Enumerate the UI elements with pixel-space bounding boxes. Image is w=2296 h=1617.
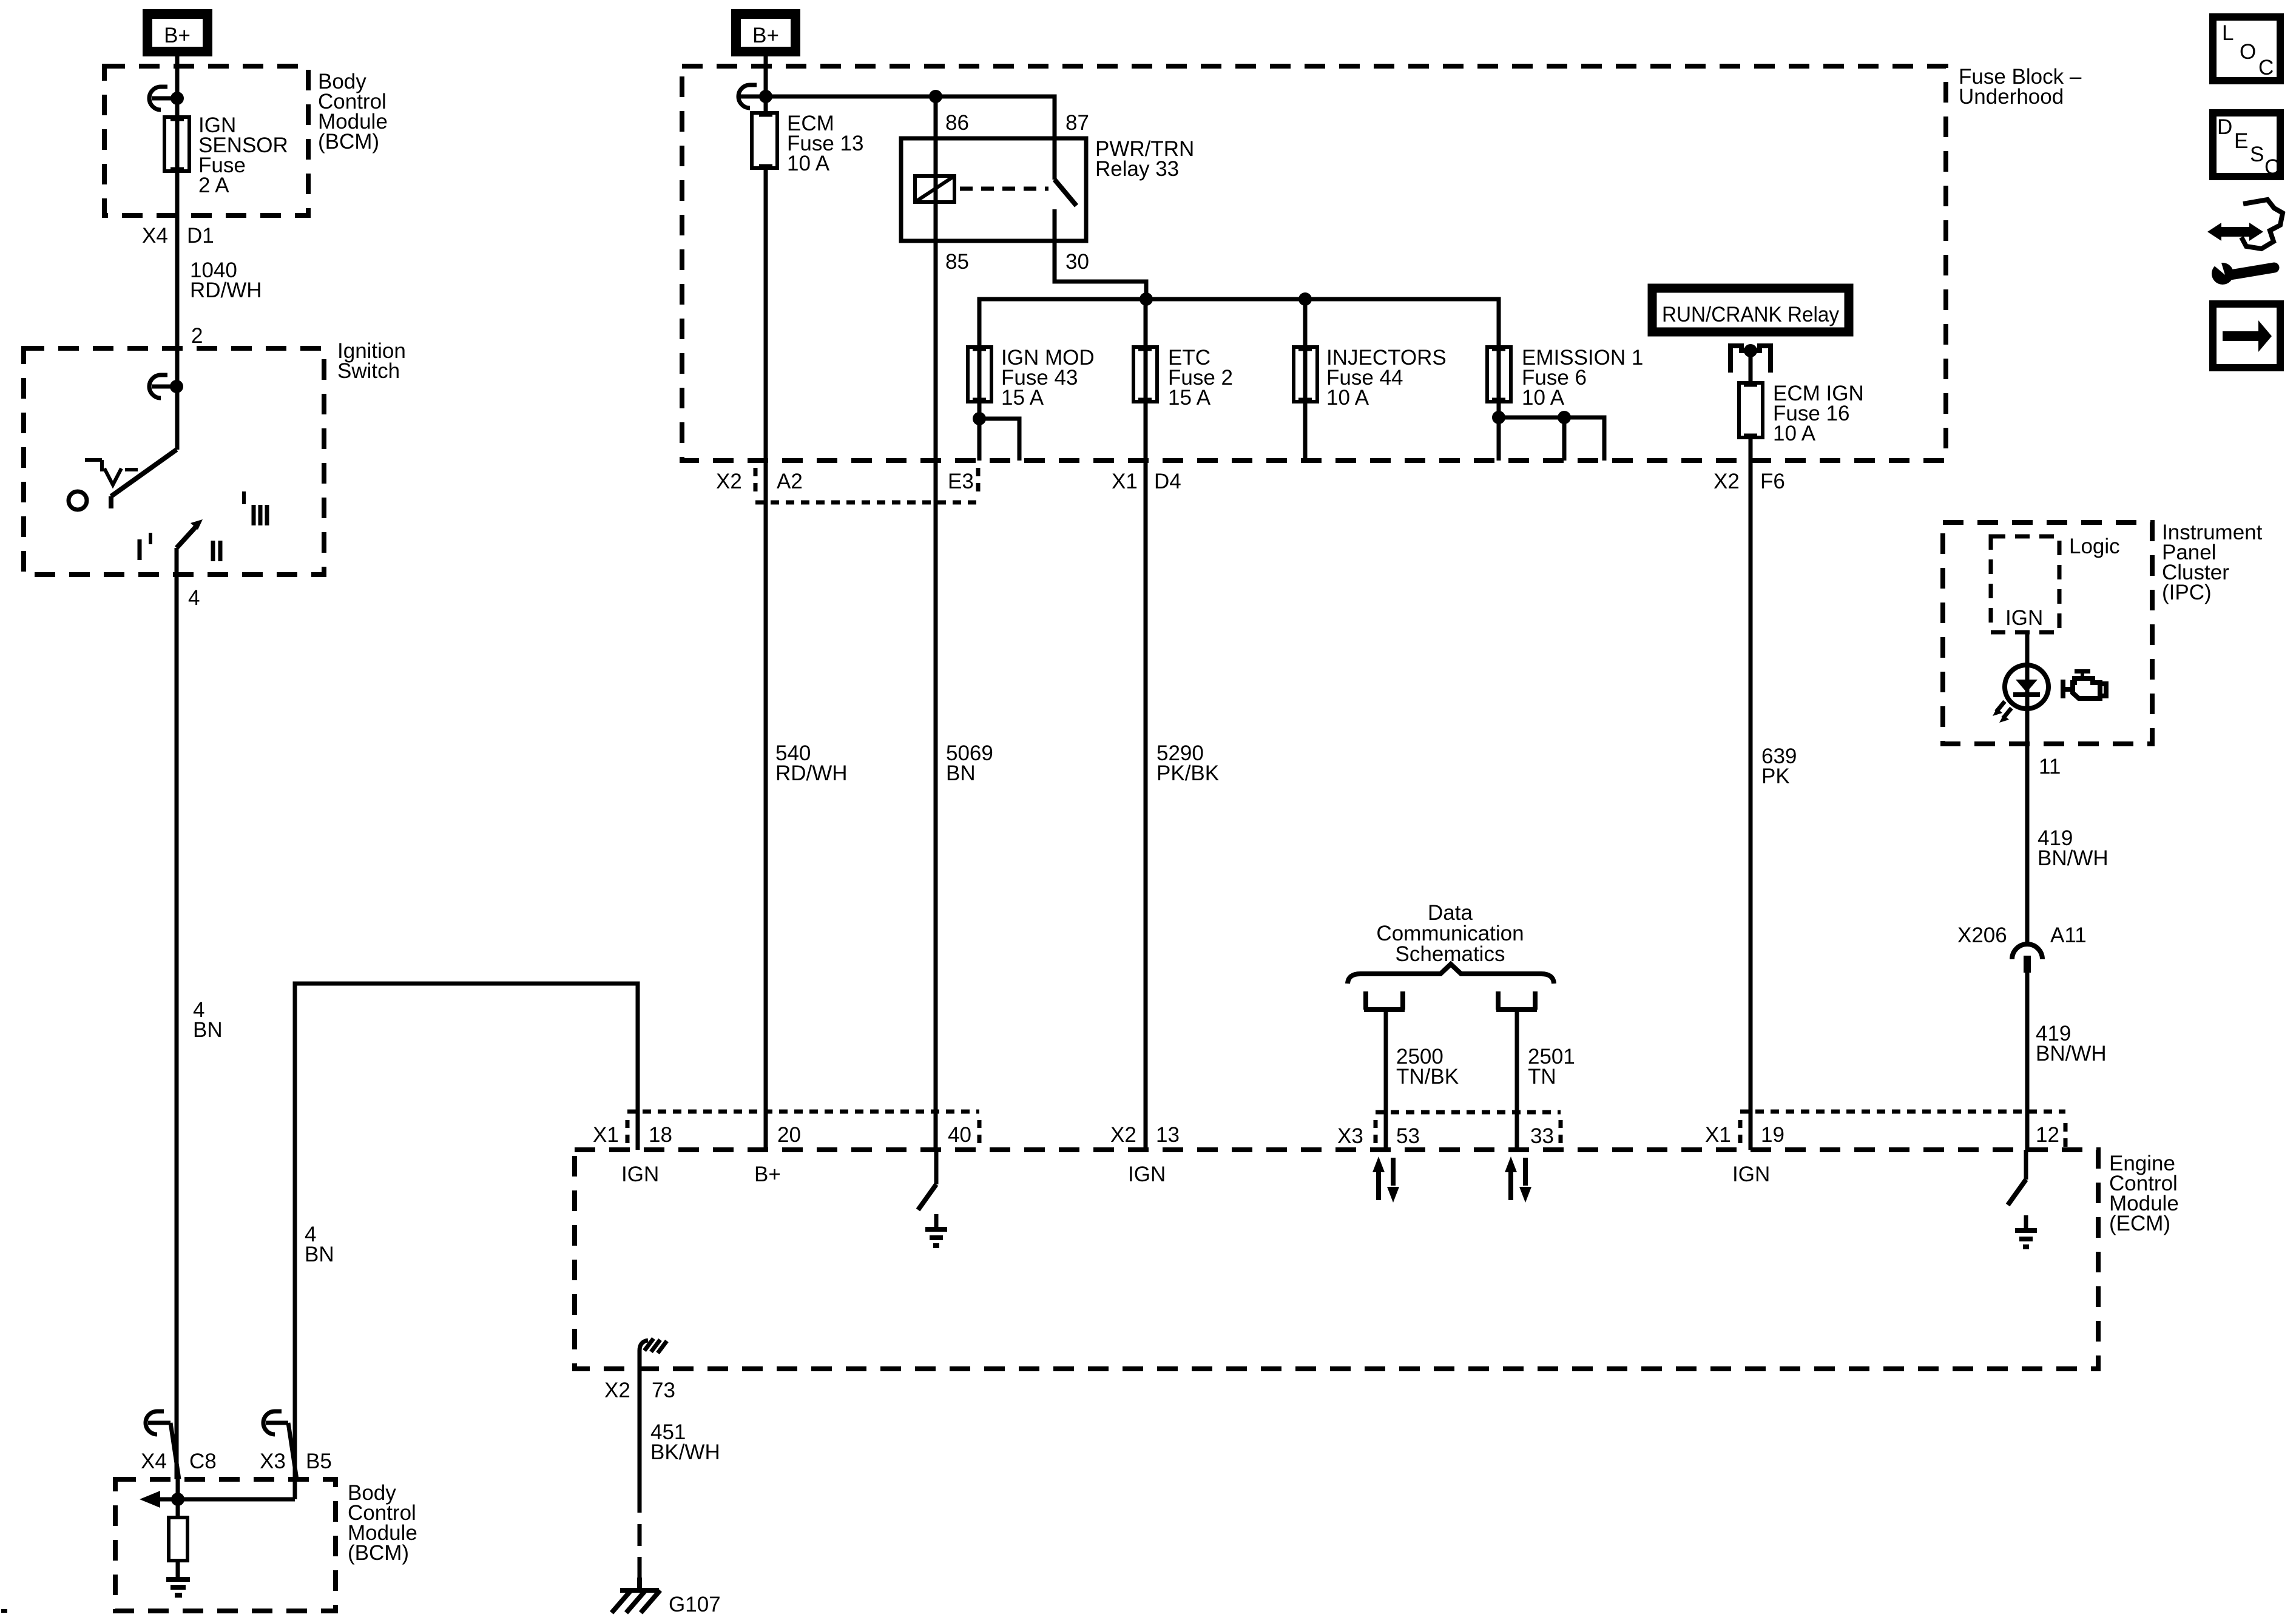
junction dot bus at INJECTORS [1298, 292, 1312, 306]
svg-text:D4: D4 [1154, 470, 1181, 493]
svg-text:RD/WH: RD/WH [190, 279, 262, 302]
svg-text:Underhood: Underhood [1959, 85, 2064, 109]
svg-text:S: S [2250, 143, 2264, 166]
label Body Control Module (BCM) [318, 70, 388, 154]
label Data Communication Schematics [1376, 901, 1524, 966]
svg-text:53: 53 [1396, 1124, 1420, 1148]
svg-text:73: 73 [652, 1379, 675, 1402]
svg-text:B5: B5 [306, 1450, 332, 1473]
svg-text:10 A: 10 A [1522, 386, 1565, 410]
position mark I [140, 533, 150, 560]
connector symbol inside BCM [149, 87, 177, 110]
svg-text:A2: A2 [777, 470, 803, 493]
svg-text:PK: PK [1761, 765, 1790, 788]
data arrows pin 53 [1373, 1156, 1399, 1203]
position mark II [213, 541, 220, 561]
svg-text:X3: X3 [1337, 1124, 1363, 1148]
wire bus B+ to relay 86/87 [766, 96, 1055, 138]
svg-text:(ECM): (ECM) [2109, 1212, 2170, 1235]
svg-text:X206: X206 [1957, 923, 2007, 947]
wire relay coil 86 to 85 down to ECM pin 40 [934, 96, 938, 1150]
svg-text:19: 19 [1761, 1123, 1784, 1147]
svg-text:A11: A11 [2050, 923, 2087, 947]
wire label 2501 TN [1528, 1045, 1575, 1089]
module box Engine Control Module (ECM) [575, 1150, 2098, 1369]
svg-text:20: 20 [777, 1123, 801, 1147]
svg-text:(BCM): (BCM) [318, 130, 379, 154]
pin label 20 with B+ [754, 1123, 801, 1186]
junction dot BCM internal [171, 1493, 184, 1506]
svg-text:X3: X3 [260, 1450, 286, 1473]
internal element (coil) BCM [169, 1499, 187, 1579]
svg-text:33: 33 [1530, 1124, 1554, 1148]
pin label X2 13 with IGN [1110, 1123, 1180, 1186]
wire label 639 PK [1761, 744, 1797, 788]
page period mark [1, 1609, 7, 1613]
ground symbol G107 [612, 1578, 721, 1616]
svg-text:(IPC): (IPC) [2162, 581, 2212, 604]
junction dot EMISSION output 1 [1492, 411, 1505, 424]
internal wire BCM with arrow [140, 1479, 295, 1508]
switch blade (upper) [111, 450, 177, 508]
wire label 5069 BN [946, 741, 993, 785]
svg-text:2 A: 2 A [198, 174, 229, 197]
svg-text:IGN: IGN [1732, 1163, 1770, 1186]
inline connector X206 A11 [1957, 923, 2087, 1150]
position mark IV [85, 460, 138, 485]
fuse IGN SENSOR Fuse 2 A [164, 113, 288, 197]
svg-text:30: 30 [1065, 250, 1089, 274]
relay PWR/TRN Relay 33 [901, 137, 1194, 241]
svg-text:86: 86 [945, 111, 969, 135]
junction dot IGN MOD output [973, 412, 986, 425]
junction dot relay terminal [1744, 344, 1757, 357]
switch to ground inside ECM (pin 12) [2008, 1150, 2037, 1247]
wire label 540 RD/WH [775, 741, 848, 785]
svg-text:BK/WH: BK/WH [650, 1440, 720, 1464]
fuse ETC Fuse 2 15 A [1133, 299, 1233, 1150]
connector strip X3 53/33 [1337, 1112, 1561, 1148]
svg-text:RUN/CRANK Relay: RUN/CRANK Relay [1662, 303, 1839, 326]
wire label 5290 PK/BK [1156, 741, 1219, 785]
svg-text:X4: X4 [141, 1450, 167, 1473]
svg-text:BN/WH: BN/WH [2038, 846, 2109, 870]
connector symbol data link 2 [1496, 991, 1537, 1150]
svg-text:13: 13 [1156, 1123, 1180, 1147]
svg-text:10 A: 10 A [787, 152, 830, 175]
label Ignition Switch [337, 339, 406, 383]
svg-text:4: 4 [188, 586, 200, 610]
fuse ECM IGN Fuse 16 10 A [1739, 351, 1864, 1150]
svg-text:10 A: 10 A [1773, 422, 1816, 445]
svg-text:18: 18 [649, 1123, 672, 1147]
svg-text:D: D [2217, 115, 2232, 139]
pin label 19 with IGN [1732, 1123, 1784, 1186]
icon box LOC [2213, 17, 2280, 81]
svg-text:E3: E3 [948, 470, 974, 493]
wire IGN MOD output step [979, 419, 1019, 461]
connector strip X1 18/20/40 [593, 1112, 979, 1147]
svg-text:TN/BK: TN/BK [1396, 1065, 1459, 1089]
svg-text:12: 12 [2036, 1123, 2059, 1147]
wire EMISSION output steps [1499, 417, 1604, 461]
svg-text:B+: B+ [752, 24, 779, 47]
junction dot BCM feed [171, 92, 184, 105]
svg-text:X4: X4 [142, 224, 168, 248]
fuse IGN MOD Fuse 43 15 A [968, 346, 1095, 461]
icon schematic reference (arrow, part outline, wrench) [2207, 200, 2283, 285]
wire label 419 BN/WH (lower) [2036, 1022, 2107, 1065]
wire B+ to BCM ignition sensor fuse [175, 56, 180, 450]
svg-text:Switch: Switch [337, 359, 400, 383]
relay coil [915, 176, 954, 202]
svg-text:10 A: 10 A [1326, 386, 1369, 410]
data arrows pin 33 [1505, 1156, 1531, 1203]
svg-text:X2: X2 [604, 1379, 630, 1402]
wire label 2500 TN/BK [1396, 1045, 1459, 1089]
svg-text:X2: X2 [1714, 470, 1740, 493]
svg-text:L: L [2222, 21, 2234, 45]
label Engine Control Module (ECM) [2109, 1152, 2179, 1235]
svg-text:15 A: 15 A [1001, 386, 1044, 410]
junction dot relay 86 tap [929, 90, 942, 103]
wire label 1040 RD/WH [190, 258, 262, 302]
svg-text:(BCM): (BCM) [348, 1541, 409, 1565]
wire label 451 BK/WH [650, 1420, 720, 1464]
logic box IPC [1991, 536, 2059, 632]
relay coil-contact dashed link [960, 187, 1048, 191]
junction dot B+ bus left [759, 90, 772, 103]
connector symbol X3/B5 [263, 1411, 297, 1479]
svg-text:G107: G107 [669, 1593, 721, 1616]
svg-text:B+: B+ [164, 24, 191, 47]
svg-text:IGN: IGN [2005, 606, 2043, 630]
icon box forward arrow [2213, 304, 2280, 368]
wire label 419 BN/WH (upper) [2038, 826, 2109, 870]
svg-text:11: 11 [2039, 755, 2061, 778]
svg-text:X2: X2 [716, 470, 742, 493]
position mark III [244, 491, 267, 525]
indicator LED (check engine lamp) [1993, 665, 2048, 723]
svg-text:F6: F6 [1760, 470, 1785, 493]
module box Fuse Block - Underhood [682, 66, 1946, 461]
connector symbol inside ignition switch [149, 375, 177, 398]
svg-text:B+: B+ [754, 1163, 781, 1186]
module box Body Control Module (BCM) bottom [115, 1479, 336, 1611]
module box Instrument Panel Cluster (IPC) [1943, 522, 2152, 744]
wire label 4 BN (lower) [305, 1223, 334, 1266]
pin label 18 with IGN [621, 1123, 672, 1186]
pin label X4 / D1 [142, 224, 214, 248]
pin labels X2 F6 (fuse block bottom) [1714, 470, 1785, 493]
svg-text:X1: X1 [593, 1123, 619, 1147]
svg-text:BN: BN [193, 1018, 223, 1042]
svg-text:RD/WH: RD/WH [775, 761, 848, 785]
svg-text:40: 40 [948, 1123, 971, 1147]
wire B+ into fuse block [764, 56, 768, 113]
power symbol B+ (left, feeds BCM) [147, 14, 208, 52]
svg-text:X1: X1 [1112, 470, 1138, 493]
wire fuse bus (relay 30 output) [979, 299, 1499, 347]
svg-text:BN/WH: BN/WH [2036, 1042, 2107, 1065]
wire label 4 BN (upper) [193, 998, 223, 1042]
label box RUN/CRANK Relay [1652, 288, 1849, 332]
fuse EMISSION 1 Fuse 6 10 A [1487, 346, 1643, 461]
switch blade arrow (lower, position II) [177, 519, 203, 548]
svg-text:PK/BK: PK/BK [1156, 761, 1219, 785]
svg-text:C: C [2258, 56, 2274, 79]
switch to ground inside ECM (pin 40) [918, 1150, 947, 1246]
relay switch blade 87-30 [1055, 138, 1146, 299]
junction dot EMISSION output 2 [1558, 411, 1571, 424]
label Instrument Panel Cluster (IPC) [2162, 521, 2263, 604]
svg-text:TN: TN [1528, 1065, 1556, 1089]
connector symbol fuse block feed [738, 85, 766, 108]
svg-text:85: 85 [945, 250, 969, 274]
module box Body Control Module (BCM) top [104, 66, 308, 215]
junction dot ignition feed [170, 380, 183, 393]
pin label X2 73 [604, 1379, 675, 1402]
pin labels X4 C8 X3 B5 [141, 1450, 332, 1473]
fuse INJECTORS Fuse 44 10 A [1294, 299, 1447, 461]
connector strip X1 19/12 [1705, 1112, 2065, 1147]
contact circle O (off position) [69, 491, 87, 510]
svg-text:BN: BN [305, 1243, 334, 1266]
svg-text:C8: C8 [189, 1450, 217, 1473]
relay terminal brackets (ECM IGN feed) [1730, 343, 1771, 373]
label Body Control Module (BCM) bottom [348, 1481, 417, 1565]
svg-text:BN: BN [946, 761, 976, 785]
wire 451 BK/WH to G107 [638, 1369, 642, 1578]
svg-text:D1: D1 [187, 224, 214, 248]
pin labels 86 87 85 30 [945, 111, 1089, 274]
svg-text:X1: X1 [1705, 1123, 1731, 1147]
engine icon [2061, 669, 2106, 698]
svg-text:E: E [2234, 129, 2248, 153]
pin labels X1 D4 (fuse block bottom) [1112, 470, 1181, 493]
svg-text:Relay 33: Relay 33 [1095, 157, 1179, 181]
wire ignition switch pin 4 down [175, 548, 179, 1479]
connector symbol X4/C8 [146, 1411, 179, 1479]
svg-text:Logic: Logic [2069, 535, 2120, 558]
svg-text:87: 87 [1065, 111, 1089, 135]
svg-text:O: O [2240, 40, 2256, 64]
ground symbol BCM [166, 1579, 190, 1595]
fuse ECM Fuse 13 10 A [752, 112, 863, 1150]
junction dot bus at ETC [1140, 292, 1153, 306]
label Fuse Block - Underhood [1959, 65, 2082, 109]
wire branch 4 BN to ECM IGN pin 18 [295, 984, 638, 1479]
svg-text:X2: X2 [1110, 1123, 1136, 1147]
brace data communication [1348, 964, 1554, 984]
connector symbol data link 1 [1364, 991, 1405, 1150]
svg-text:IGN: IGN [1128, 1163, 1166, 1186]
svg-text:IGN: IGN [621, 1163, 659, 1186]
svg-text:C: C [2264, 155, 2280, 179]
connector strip X2 A2/E3 (fuse block bottom) [716, 468, 978, 502]
wire logic to LED [2025, 632, 2030, 944]
chassis ground inside ECM (pin 73) [640, 1338, 667, 1369]
power symbol B+ (fuse block) [736, 14, 795, 52]
svg-text:2: 2 [191, 324, 203, 348]
icon box DESC [2213, 113, 2280, 179]
svg-text:15 A: 15 A [1168, 386, 1211, 410]
module box Ignition Switch [24, 348, 324, 575]
